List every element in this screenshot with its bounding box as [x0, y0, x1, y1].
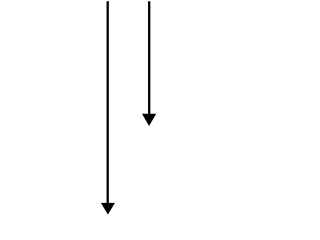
wire: left arrow shaft [107, 1, 109, 204]
wire: right arrow shaft [148, 1, 150, 115]
left arrowhead [101, 203, 115, 215]
right arrowhead [142, 114, 156, 126]
